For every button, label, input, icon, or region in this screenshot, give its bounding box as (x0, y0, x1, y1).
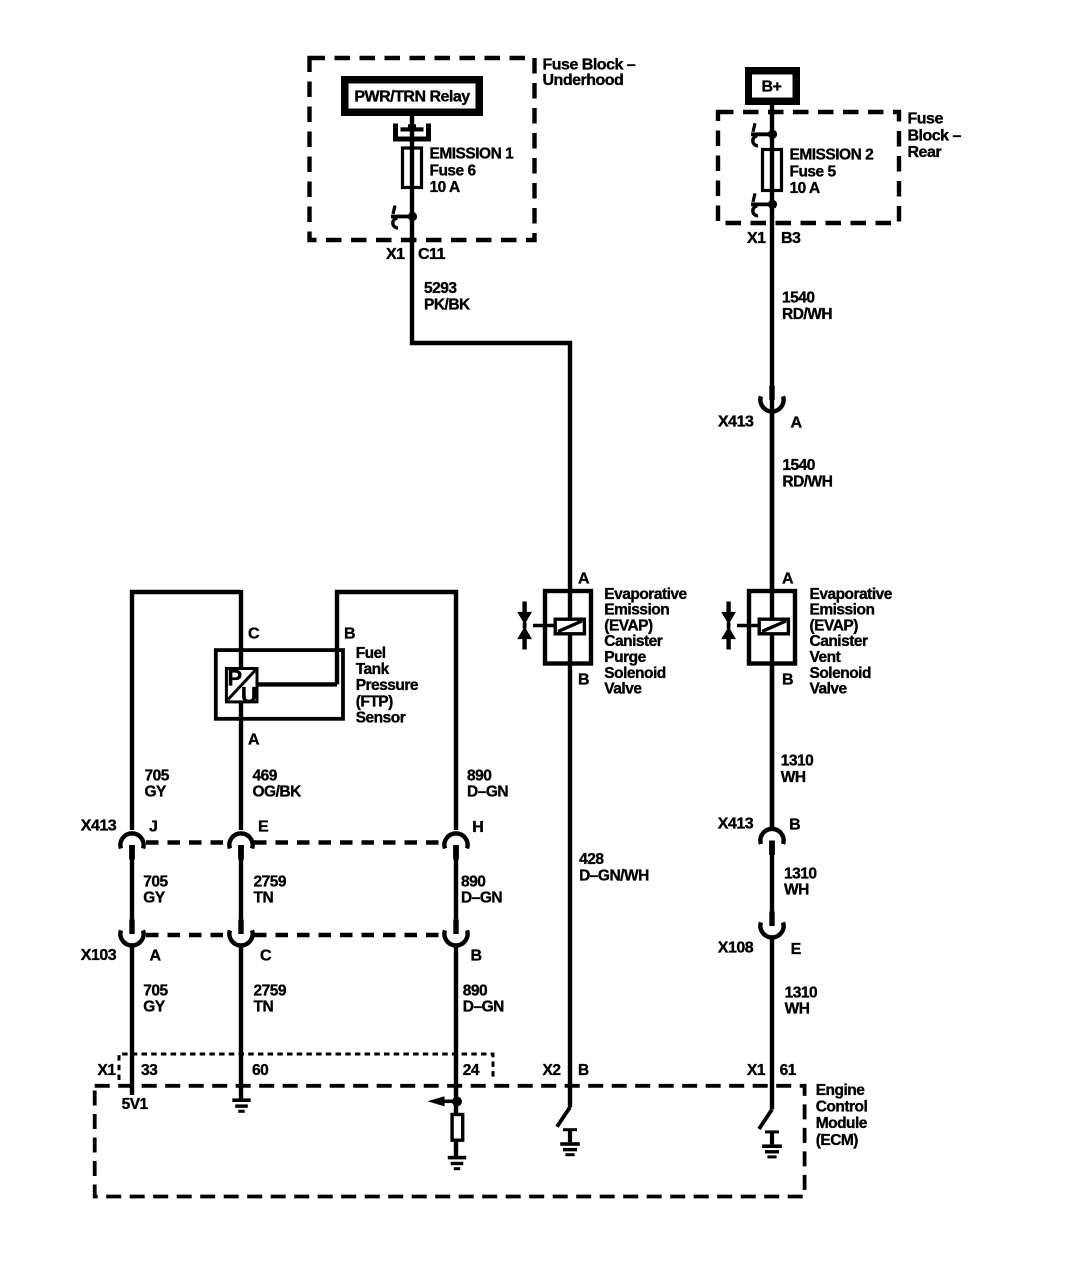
label: Evaporative Emission (EVAP) Canister Vent Solenoid Valve (810, 586, 893, 698)
svg-text:1540: 1540 (782, 457, 814, 474)
svg-text:B: B (578, 1062, 589, 1079)
label: X413 A (718, 413, 803, 431)
svg-text:B: B (471, 947, 482, 964)
svg-text:A: A (150, 947, 162, 964)
svg-text:B: B (344, 626, 355, 643)
label: ECM connector X1 (right) (747, 1062, 766, 1079)
relay K: PWR/TRN Relay box (341, 76, 483, 116)
svg-text:GY: GY (143, 999, 166, 1016)
svg-text:Canister: Canister (604, 633, 662, 650)
svg-text:Valve: Valve (810, 681, 848, 698)
svg-text:WH: WH (781, 769, 806, 786)
svg-text:A: A (578, 571, 590, 588)
svg-text:B+: B+ (762, 79, 782, 96)
svg-text:24: 24 (463, 1062, 480, 1079)
svg-text:5V1: 5V1 (122, 1096, 149, 1113)
svg-text:(FTP): (FTP) (356, 693, 393, 710)
connector X413 pin E (229, 819, 269, 860)
svg-text:RD/WH: RD/WH (782, 474, 832, 491)
switch and ground at ECM X1 61 (759, 1109, 782, 1158)
svg-text:(ECM): (ECM) (816, 1132, 859, 1149)
label: wire 1540 RD/WH (upper) (782, 290, 832, 324)
dashed connector bus X413 (146, 840, 444, 844)
svg-text:D–GN: D–GN (463, 999, 504, 1016)
wire: 890 D–GN between X413 and X103 (454, 858, 458, 921)
svg-text:X413: X413 (718, 413, 754, 430)
svg-text:A: A (782, 571, 794, 588)
connector X413 pin J (120, 819, 157, 860)
svg-text:B3: B3 (781, 230, 801, 247)
svg-text:Engine: Engine (816, 1082, 866, 1099)
svg-text:WH: WH (784, 882, 809, 899)
svg-text:P: P (228, 666, 242, 691)
svg-text:Purge: Purge (604, 649, 646, 666)
purge solenoid box (545, 591, 591, 664)
svg-text:X413: X413 (81, 818, 117, 835)
connector X413 pin B inline (760, 829, 783, 855)
label: wire 2759 TN (row 2) (254, 873, 287, 906)
svg-text:GY: GY (145, 784, 168, 801)
vent solenoid box (749, 591, 795, 664)
label: purge pin B (578, 672, 589, 689)
ground at ECM pin 60 (232, 1098, 250, 1112)
svg-text:Fuse 5: Fuse 5 (790, 163, 837, 180)
wire: 2759 TN to ECM pin 60 (239, 947, 243, 1099)
svg-text:Emission: Emission (810, 602, 875, 619)
svg-text:2759: 2759 (254, 983, 287, 1000)
svg-text:Sensor: Sensor (356, 709, 406, 726)
label: wire 890 D–GN (row 1) (467, 768, 508, 801)
svg-text:U: U (241, 683, 256, 708)
svg-text:5293: 5293 (424, 280, 457, 297)
svg-text:GY: GY (143, 890, 166, 907)
purge coil (555, 619, 584, 634)
purge valve connector line (533, 624, 555, 628)
label: FTP pin A (248, 732, 260, 749)
wire: 890 D–GN to ECM pin 24 (454, 947, 458, 1114)
resistor R (ECM internal) (452, 1115, 463, 1141)
vent valve symbol (721, 602, 736, 650)
svg-text:EMISSION 2: EMISSION 2 (790, 147, 874, 164)
svg-text:(EVAP): (EVAP) (604, 617, 653, 634)
svg-text:Canister: Canister (810, 633, 868, 650)
svg-text:705: 705 (143, 873, 168, 890)
svg-text:WH: WH (785, 1000, 810, 1017)
svg-text:61: 61 (780, 1062, 797, 1079)
svg-text:Solenoid: Solenoid (604, 665, 665, 682)
svg-text:Evaporative: Evaporative (604, 586, 687, 603)
svg-text:Pressure: Pressure (356, 677, 419, 694)
fuse block underhood dashed box (310, 58, 535, 240)
wire: purge pin B to ECM X2 B, 428 D–GN/WH (568, 663, 572, 1107)
label: ECM pin 60 (252, 1062, 268, 1079)
svg-text:1310: 1310 (785, 984, 817, 1001)
svg-text:H: H (472, 819, 483, 836)
svg-text:Vent: Vent (810, 649, 841, 666)
EVAP vent solenoid valve U2 (721, 591, 795, 664)
connector X103 row label (81, 947, 117, 964)
svg-text:60: 60 (252, 1062, 268, 1079)
label: ECM connector X2 (543, 1062, 561, 1079)
label: vent pin B (782, 672, 793, 689)
fuse holder clip top (rear) (751, 123, 777, 145)
svg-text:X413: X413 (718, 816, 754, 833)
wire: FTP sensor loop left (pin C to X413 J), 705 GY (132, 592, 241, 830)
wire: X413 A to vent solenoid pin A (770, 413, 774, 589)
fuel tank pressure sensor outer box (216, 650, 343, 719)
label: purge pin A (578, 571, 590, 588)
wire: 1310 WH between X413 B and X108 E (770, 854, 774, 914)
svg-text:PWR/TRN Relay: PWR/TRN Relay (354, 89, 470, 106)
svg-text:X1: X1 (98, 1062, 117, 1079)
label: wire 1310 WH (upper) (781, 753, 813, 786)
label: connector X1 C11 (386, 246, 446, 263)
svg-text:Block –: Block – (908, 127, 962, 144)
label: wire 1310 WH (middle) (784, 866, 816, 899)
label: ECM pin 61 (780, 1062, 797, 1079)
svg-text:Evaporative: Evaporative (810, 586, 893, 603)
label: EMISSION 2 Fuse 5 10 A (790, 147, 874, 197)
label: wire 705 GY (row 1) (145, 768, 170, 801)
svg-text:X1: X1 (747, 1062, 766, 1079)
connector X108 pin E inline (760, 912, 783, 938)
svg-text:Underhood: Underhood (543, 72, 624, 89)
svg-text:B: B (782, 672, 793, 689)
label: connector X1 B3 (747, 230, 801, 247)
wire: PWR/TRN relay output down through fuse 6 to X1 C11 and corner to purge solenoid (412, 116, 570, 663)
svg-text:RD/WH: RD/WH (782, 306, 832, 323)
vent coil (759, 619, 788, 634)
label: vent pin A (782, 571, 794, 588)
svg-text:C: C (248, 626, 260, 643)
svg-text:C11: C11 (418, 246, 446, 263)
label: wire 705 GY (row 3) (143, 983, 168, 1016)
svg-text:1310: 1310 (784, 866, 816, 883)
svg-text:X2: X2 (543, 1062, 561, 1079)
label: ECM connector X1 (left) (98, 1062, 117, 1079)
fuse F1: EMISSION 1 Fuse 6 (403, 148, 422, 188)
fuse F2: EMISSION 2 Fuse 5 (763, 150, 782, 191)
svg-text:(EVAP): (EVAP) (810, 617, 859, 634)
connector X413 pin H (444, 819, 483, 860)
relay terminal clip (U bracket and T bar) (396, 124, 429, 140)
svg-text:D–GN: D–GN (467, 784, 508, 801)
svg-text:705: 705 (143, 983, 168, 1000)
purge valve symbol (517, 602, 532, 650)
EVAP purge solenoid valve U1 (517, 591, 591, 664)
svg-text:705: 705 (145, 768, 170, 785)
svg-text:TN: TN (254, 999, 274, 1016)
label: X413 B (718, 816, 800, 834)
label: ECM pin 24 (463, 1062, 480, 1079)
svg-text:Valve: Valve (604, 681, 642, 698)
svg-text:X108: X108 (718, 939, 754, 956)
svg-text:10 A: 10 A (790, 180, 820, 197)
svg-text:Emission: Emission (604, 602, 669, 619)
svg-text:33: 33 (141, 1062, 158, 1079)
label: wire 2759 TN (row 3) (254, 983, 287, 1016)
fuse holder clip bottom (underhood) (391, 206, 417, 228)
svg-text:J: J (149, 819, 157, 836)
wire: resistor to ground (454, 1140, 458, 1156)
svg-text:X1: X1 (386, 246, 405, 263)
ground below resistor (448, 1156, 466, 1170)
label: wire 1310 WH (lower) (785, 984, 817, 1017)
wire: FTP pin B loop right (to X413 H), 890 D–GN (258, 592, 456, 830)
label: Fuse Block - Rear (908, 111, 962, 162)
label: wire 890 D–GN (row 2) (461, 873, 502, 906)
svg-text:890: 890 (467, 768, 491, 785)
svg-text:X103: X103 (81, 947, 117, 964)
label: wire 705 GY (row 2) (143, 873, 168, 906)
fuse holder clip bottom (rear) (751, 193, 777, 215)
label: ECM pin B (578, 1062, 589, 1079)
connector X413 row label (81, 818, 117, 835)
label: FTP pin C (248, 626, 260, 643)
label: node 5V1 (122, 1096, 149, 1113)
wire: FTP pin C / pin A vertical, 469 OG/BK (239, 590, 243, 830)
sensor element P/U box (226, 666, 257, 708)
connector X103 pin A (120, 920, 161, 965)
label: wire 1540 RD/WH (lower) (782, 457, 832, 491)
svg-text:B: B (789, 817, 800, 834)
label: Engine Control Module (ECM) (816, 1082, 868, 1149)
connector X103 pin B (444, 920, 481, 965)
svg-text:Control: Control (816, 1099, 868, 1116)
label: Fuel Tank Pressure (FTP) Sensor (356, 645, 419, 726)
svg-text:D–GN/WH: D–GN/WH (579, 867, 649, 884)
svg-text:Rear: Rear (908, 144, 942, 161)
svg-text:428: 428 (579, 851, 604, 868)
svg-text:890: 890 (463, 983, 487, 1000)
label: ECM pin 33 (141, 1062, 158, 1079)
svg-text:E: E (258, 819, 269, 836)
svg-text:A: A (791, 415, 803, 432)
vent valve connector line (737, 624, 759, 628)
svg-text:Module: Module (816, 1115, 868, 1132)
svg-text:TN: TN (254, 890, 274, 907)
internal arrow at ECM pin 24 (428, 1096, 463, 1106)
svg-text:OG/BK: OG/BK (253, 784, 303, 801)
label: Evaporative Emission (EVAP) Canister Purge Solenoid Valve (604, 586, 687, 698)
svg-text:1540: 1540 (782, 290, 814, 307)
svg-text:A: A (248, 732, 260, 749)
connector X103 pin C (229, 920, 272, 965)
wire: B+ down through fuse 5 to X413 A (770, 104, 774, 829)
svg-text:2759: 2759 (254, 873, 287, 890)
wire: 705 GY to ECM pin 33 (130, 947, 134, 1095)
wire: 2759 TN between X413 and X103 (239, 858, 243, 921)
svg-text:Tank: Tank (356, 661, 390, 678)
connector X413 pin A inline (760, 386, 783, 412)
label: wire 5293 PK/BK (424, 280, 471, 314)
label: wire 469 OG/BK (253, 768, 303, 801)
wire: 705 GY between X413 and X103 (130, 858, 134, 921)
switch and ground at ECM X2 B (557, 1107, 580, 1156)
label: Fuse Block - Underhood (543, 57, 636, 89)
label: wire 890 D–GN (row 3) (463, 983, 504, 1016)
svg-text:Fuse 6: Fuse 6 (430, 162, 477, 179)
wire: vent pin B down, 1310 WH (770, 663, 774, 829)
svg-text:B: B (578, 672, 589, 689)
svg-text:Solenoid: Solenoid (810, 665, 871, 682)
ECM connector X1 dotted box (119, 1054, 493, 1080)
label: FTP pin B (344, 626, 355, 643)
wire: 1310 WH to ECM X1 61 (770, 939, 774, 1110)
battery feed B+ box (745, 67, 800, 105)
fuse block rear dashed box (718, 112, 899, 223)
label: wire 428 D–GN/WH (579, 851, 649, 884)
svg-text:EMISSION 1: EMISSION 1 (430, 146, 515, 163)
svg-text:469: 469 (253, 768, 278, 785)
label: EMISSION 1 Fuse 6 10 A (430, 146, 515, 196)
svg-text:PK/BK: PK/BK (424, 297, 471, 314)
svg-text:D–GN: D–GN (461, 890, 502, 907)
svg-text:890: 890 (461, 873, 485, 890)
svg-text:X1: X1 (747, 230, 766, 247)
label: X108 E (718, 939, 802, 958)
ECM dashed box (95, 1086, 805, 1197)
svg-text:10 A: 10 A (430, 179, 460, 196)
dashed connector bus X103 (146, 933, 444, 937)
svg-text:Fuse: Fuse (908, 111, 944, 128)
svg-text:C: C (260, 947, 272, 964)
svg-text:E: E (791, 941, 802, 958)
svg-text:1310: 1310 (781, 753, 813, 770)
svg-text:Fuel: Fuel (356, 645, 386, 662)
